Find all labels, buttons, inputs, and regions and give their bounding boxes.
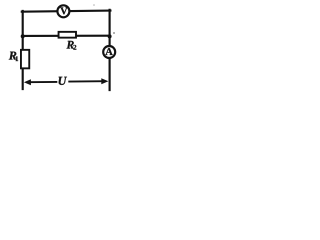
resistor R2 label R [67, 41, 74, 49]
scan speckle 2 [93, 4, 95, 6]
resistor R2 label subscript 2 [73, 45, 76, 50]
resistor R1 label R [9, 52, 17, 60]
ammeter A1 circle [103, 46, 115, 58]
ammeter A1 letter A [105, 48, 112, 55]
U arrow right head [101, 78, 108, 84]
U label [59, 77, 67, 85]
wire middle branch horizontal [23, 35, 110, 37]
wire top horizontal [22, 11, 111, 12]
node junction dot right [108, 34, 112, 38]
wire left vertical [22, 11, 24, 89]
voltmeter V1 letter V [60, 7, 67, 14]
voltmeter V1 circle [57, 5, 69, 17]
resistor R2 box [59, 32, 76, 38]
wire right vertical [109, 10, 111, 90]
U arrow right line [68, 80, 105, 82]
U arrow left head [24, 79, 31, 85]
node junction dot left [21, 34, 25, 38]
resistor R1 label subscript 1 [16, 56, 19, 61]
scan speckle [113, 32, 115, 34]
U arrow left line [27, 81, 58, 83]
resistor R1 box [21, 50, 29, 69]
